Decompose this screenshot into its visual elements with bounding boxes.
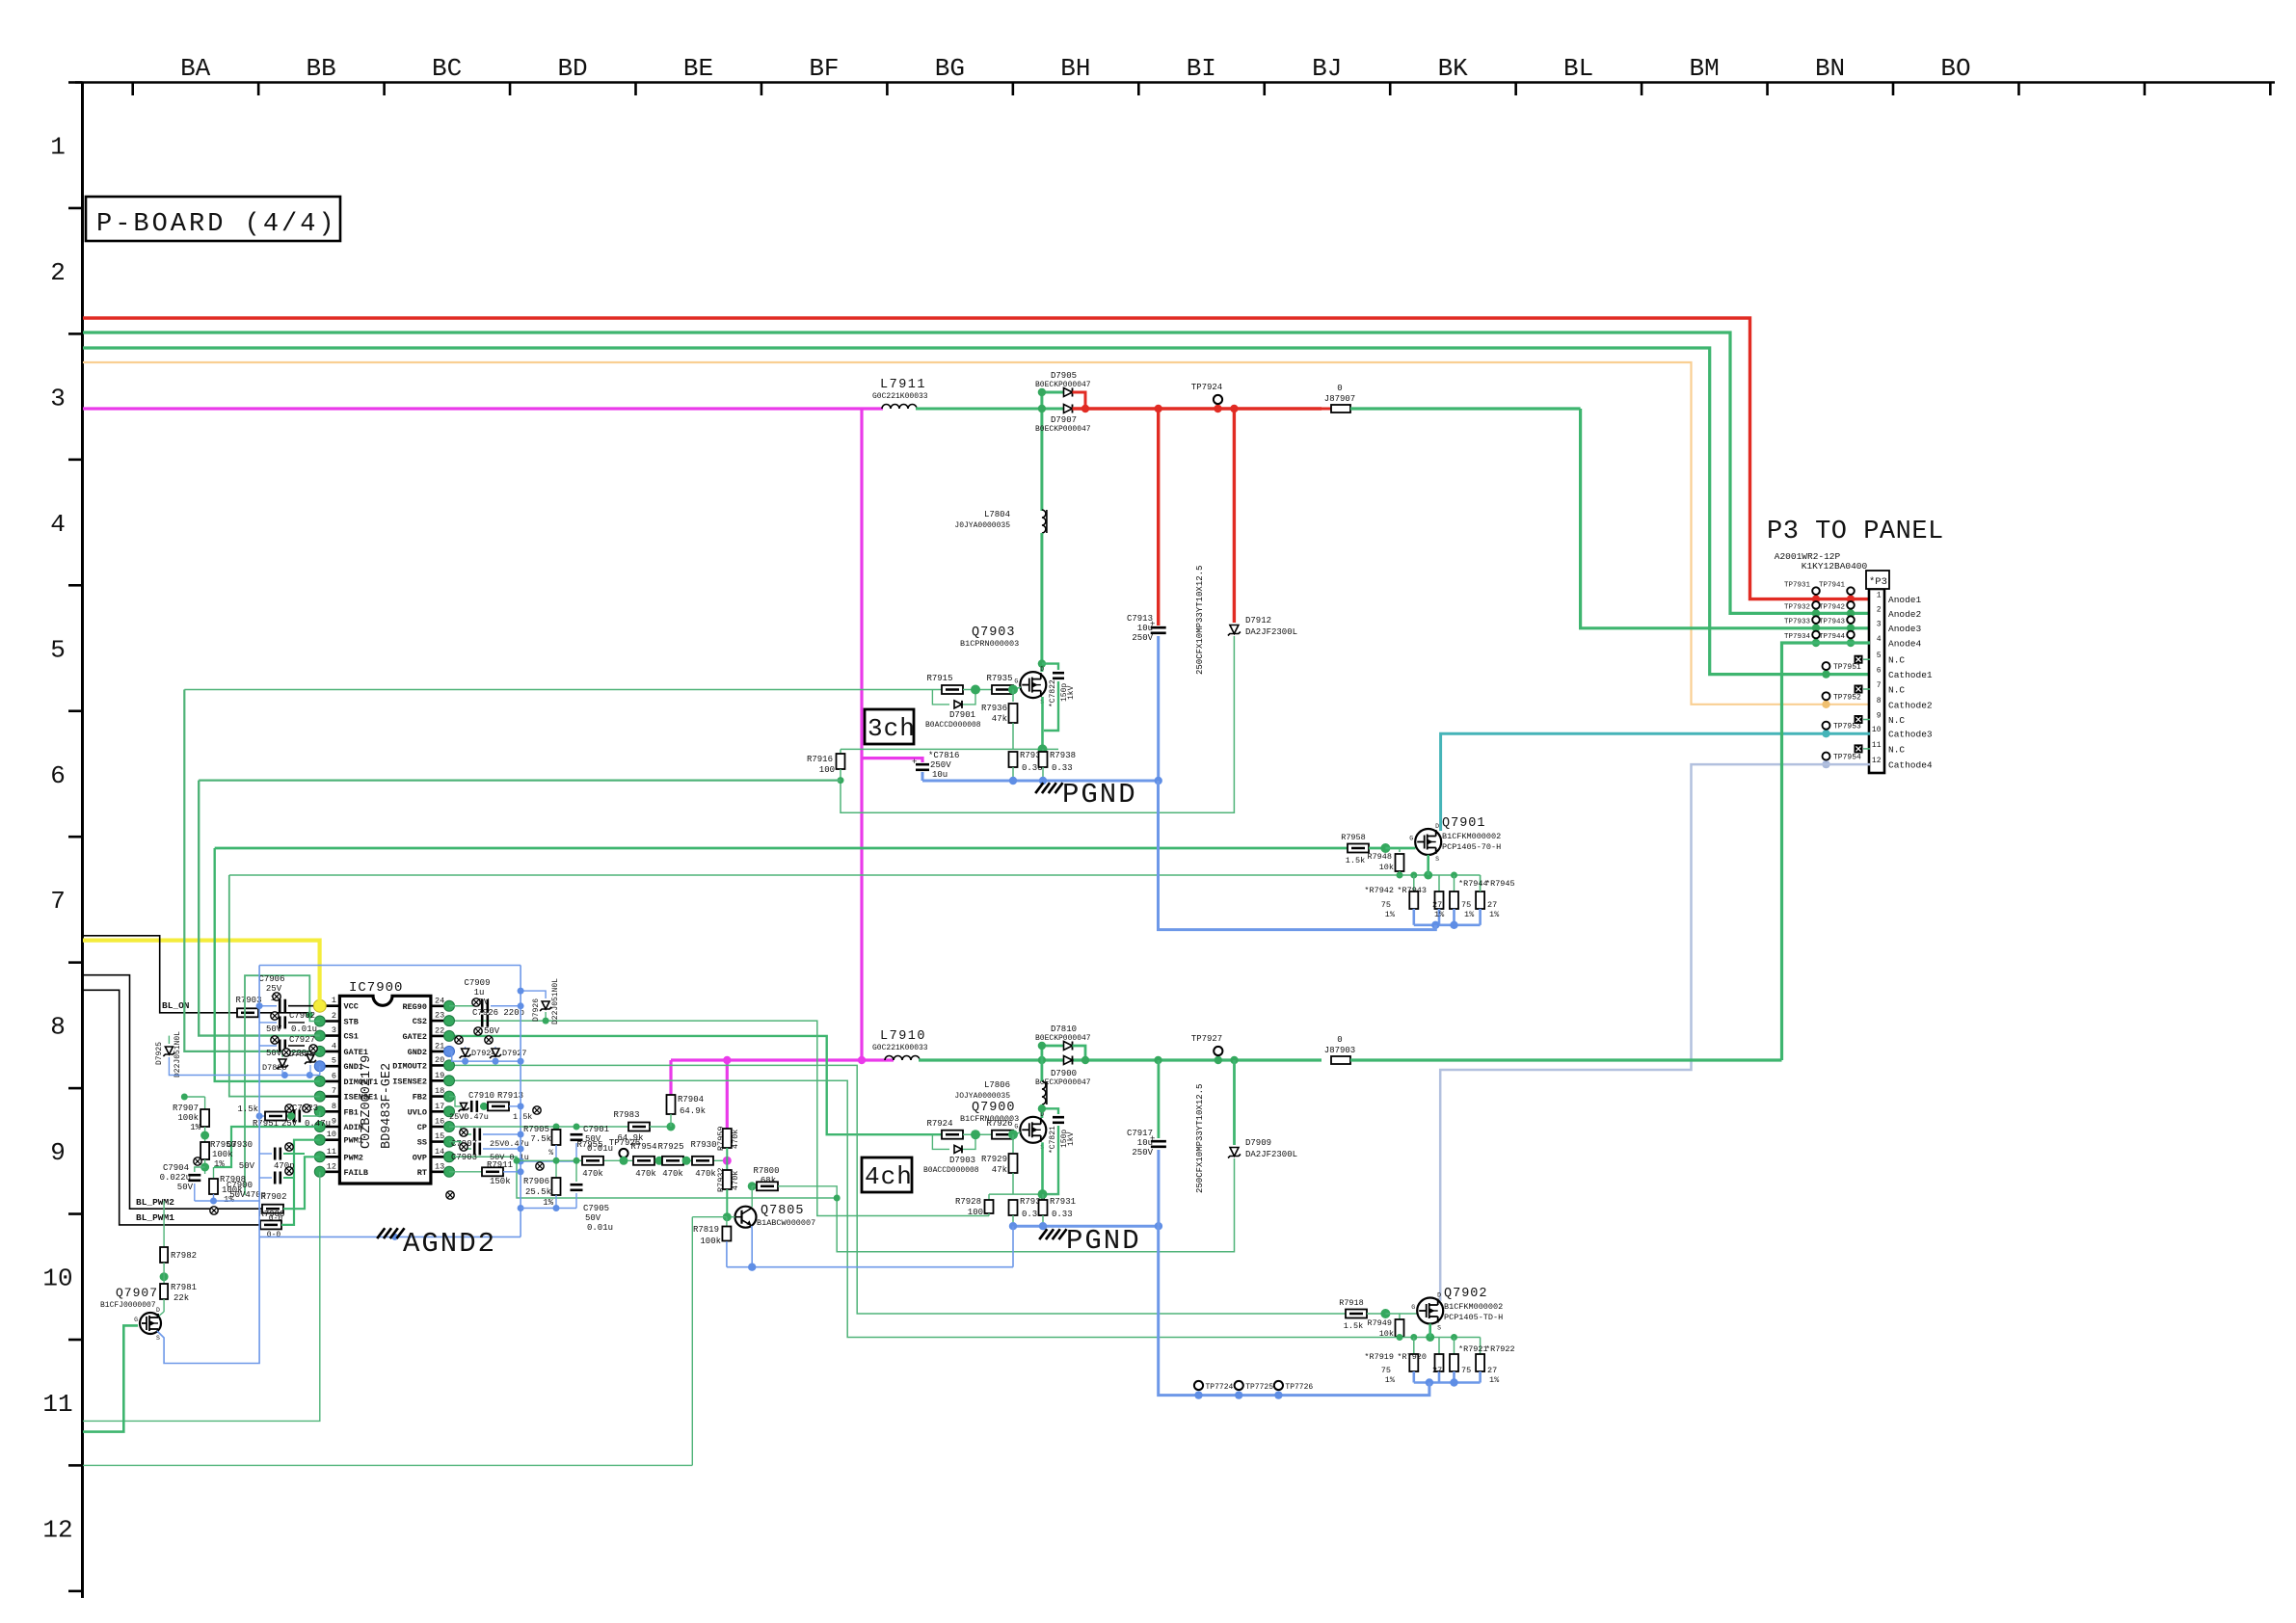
wire Q7907 source blue xyxy=(157,1237,259,1363)
inductor L7804 xyxy=(1042,510,1046,533)
svg-text:BB: BB xyxy=(307,54,336,83)
svg-text:250V: 250V xyxy=(930,760,951,770)
svg-text:0-0: 0-0 xyxy=(267,1231,281,1239)
svg-text:1.5k: 1.5k xyxy=(513,1112,532,1122)
svg-text:R7913: R7913 xyxy=(497,1091,523,1101)
svg-text:250V: 250V xyxy=(1132,633,1153,643)
svg-text:D7828: D7828 xyxy=(262,1063,287,1073)
svg-text:9: 9 xyxy=(50,1138,66,1167)
wire 4ch trunk green xyxy=(919,1058,1322,1061)
inductor L7911 xyxy=(882,405,917,410)
resistor R7983 64.9k xyxy=(628,1123,650,1131)
svg-text:D7912: D7912 xyxy=(1245,616,1271,625)
capacitor C7902 xyxy=(259,1022,277,1024)
mosfet Q7902 xyxy=(1417,1298,1443,1324)
ground PGND 3ch xyxy=(1035,783,1043,793)
svg-text:1%: 1% xyxy=(214,1159,225,1169)
wire CS1 from 3ch xyxy=(199,781,320,1036)
svg-text:TP7944: TP7944 xyxy=(1819,633,1846,641)
wire Q7907 gate feed xyxy=(83,1325,138,1431)
wire 3ch red rail to J87907 xyxy=(1073,407,1322,410)
svg-text:C7926 220p: C7926 220p xyxy=(472,1008,524,1018)
svg-text:PCP1405-TD-H: PCP1405-TD-H xyxy=(1444,1313,1503,1322)
svg-text:R7906: R7906 xyxy=(523,1177,549,1186)
svg-text:50V: 50V xyxy=(239,1161,255,1171)
svg-text:470k: 470k xyxy=(731,1171,740,1190)
svg-text:R7955: R7955 xyxy=(576,1140,602,1150)
IC pin 17 UVLO xyxy=(431,1110,449,1113)
svg-text:10: 10 xyxy=(42,1264,72,1293)
svg-text:*R7943: *R7943 xyxy=(1397,886,1427,895)
svg-text:5: 5 xyxy=(1877,652,1882,660)
svg-text:S: S xyxy=(1437,1325,1441,1332)
svg-text:12: 12 xyxy=(327,1161,336,1171)
svg-text:47k: 47k xyxy=(992,1165,1007,1175)
svg-text:S: S xyxy=(156,1335,160,1342)
svg-text:2: 2 xyxy=(332,1011,336,1021)
resistor R7903 xyxy=(237,1008,258,1017)
wire DIMOUT1 from Q7901 line xyxy=(215,848,320,1081)
svg-text:TP7941: TP7941 xyxy=(1819,582,1846,590)
wire Q7900 source junction xyxy=(1041,1142,1044,1194)
svg-text:Anode3: Anode3 xyxy=(1888,624,1922,634)
svg-text:R7959: R7959 xyxy=(716,1126,726,1151)
svg-text:*C7821: *C7821 xyxy=(1049,1126,1057,1154)
IC pin 24 REG90 xyxy=(431,1005,449,1008)
diode D7925 xyxy=(168,1036,170,1044)
svg-text:9: 9 xyxy=(1877,712,1882,721)
IC pin 18 FB2 xyxy=(431,1095,449,1098)
svg-text:C7917: C7917 xyxy=(1127,1129,1153,1138)
wire Q7903 source junction xyxy=(1041,697,1044,749)
wire Q7903 drain branch xyxy=(1042,392,1064,409)
svg-text:CS2: CS2 xyxy=(413,1017,427,1026)
wire 4ch PGND bus blue xyxy=(1013,1225,1159,1228)
wire D7912 return xyxy=(841,636,1234,812)
svg-text:B1CFJ0000007: B1CFJ0000007 xyxy=(100,1301,156,1310)
svg-text:G0C221K00033: G0C221K00033 xyxy=(872,1044,928,1052)
svg-text:75: 75 xyxy=(1381,1366,1391,1375)
svg-text:4: 4 xyxy=(332,1041,336,1051)
svg-text:Anode4: Anode4 xyxy=(1888,639,1922,650)
svg-text:B1CFKM000002: B1CFKM000002 xyxy=(1444,1302,1503,1312)
svg-text:C7913: C7913 xyxy=(1127,614,1153,624)
svg-text:OVP: OVP xyxy=(413,1153,427,1162)
svg-text:C7900: C7900 xyxy=(227,1181,253,1190)
resistor R7936 47k xyxy=(1012,690,1014,703)
jumper J87907 0ohm xyxy=(1322,408,1331,411)
svg-text:C7903: C7903 xyxy=(451,1153,477,1162)
svg-text:C7905: C7905 xyxy=(583,1204,609,1213)
wire black BL_ON xyxy=(83,936,237,1013)
diode D7823 xyxy=(309,1046,311,1052)
svg-text:C7910: C7910 xyxy=(468,1091,494,1101)
wire PWM1 entry xyxy=(281,1140,320,1225)
svg-text:D7905: D7905 xyxy=(1051,371,1077,381)
svg-text:B1ABCW000007: B1ABCW000007 xyxy=(757,1218,815,1228)
svg-text:5: 5 xyxy=(332,1056,336,1066)
capacitor C7821 snubber xyxy=(1042,1108,1058,1114)
svg-text:B0ECXP000047: B0ECXP000047 xyxy=(1035,1078,1091,1087)
wire ISENSE1 from bus xyxy=(229,875,320,1097)
svg-text:BN: BN xyxy=(1815,54,1845,83)
svg-text:1%: 1% xyxy=(543,1198,553,1208)
svg-text:11: 11 xyxy=(1872,741,1882,750)
jumper J87903 0ohm xyxy=(1331,1056,1350,1064)
svg-text:25.5k: 25.5k xyxy=(525,1187,551,1197)
svg-text:100k: 100k xyxy=(177,1113,199,1123)
svg-text:D: D xyxy=(1435,823,1439,830)
IC pin 22 GATE2 xyxy=(431,1035,449,1038)
svg-text:R7929: R7929 xyxy=(981,1155,1007,1164)
svg-text:TP7725: TP7725 xyxy=(1245,1383,1273,1392)
svg-text:Q7903: Q7903 xyxy=(972,625,1016,640)
resistor R7926 xyxy=(992,1131,1013,1139)
resistor R7902 xyxy=(262,1205,283,1213)
4ch label box xyxy=(862,1157,912,1192)
diode D7900 xyxy=(1064,1056,1073,1065)
svg-text:%: % xyxy=(548,1149,553,1157)
wire DIMOUT1 gate line to Q7901 xyxy=(215,847,1348,850)
svg-text:10: 10 xyxy=(327,1130,336,1139)
svg-text:1: 1 xyxy=(50,133,66,162)
mosfet Q7900 xyxy=(1020,1117,1046,1143)
svg-text:J87903: J87903 xyxy=(1324,1046,1355,1055)
3ch label box xyxy=(865,709,914,744)
svg-text:D7909: D7909 xyxy=(1245,1138,1271,1148)
svg-text:25V: 25V xyxy=(266,984,282,994)
svg-text:100k: 100k xyxy=(700,1237,721,1246)
svg-text:64.9k: 64.9k xyxy=(680,1106,706,1116)
svg-text:K1KY12BA0400: K1KY12BA0400 xyxy=(1802,561,1868,572)
svg-text:13: 13 xyxy=(435,1161,444,1171)
svg-text:6: 6 xyxy=(1877,667,1882,676)
capacitor C7930 xyxy=(259,1153,272,1155)
svg-text:P3 TO PANEL: P3 TO PANEL xyxy=(1767,518,1944,546)
svg-text:TP7927: TP7927 xyxy=(1191,1034,1222,1044)
svg-text:22k: 22k xyxy=(174,1293,189,1303)
svg-text:21: 21 xyxy=(435,1041,444,1051)
resistor R7948 10k xyxy=(1399,848,1401,852)
svg-text:5: 5 xyxy=(50,635,66,664)
svg-text:27: 27 xyxy=(1432,900,1442,910)
svg-text:1u: 1u xyxy=(474,988,485,998)
svg-text:UVLO: UVLO xyxy=(408,1107,427,1117)
svg-text:0: 0 xyxy=(1337,384,1342,393)
svg-text:100k: 100k xyxy=(212,1150,233,1159)
wire CS1 sense to IC xyxy=(199,779,841,781)
svg-text:TP7724: TP7724 xyxy=(1206,1383,1234,1392)
wire UVLO rail xyxy=(449,1126,628,1128)
inductor L7806 xyxy=(1041,1060,1044,1081)
wire Anode4 riser xyxy=(1782,643,1871,1060)
svg-text:DA2JF2300L: DA2JF2300L xyxy=(1245,627,1297,637)
svg-text:100: 100 xyxy=(819,765,835,775)
svg-text:19: 19 xyxy=(435,1071,444,1080)
svg-text:SS: SS xyxy=(417,1138,427,1148)
wire ISENSE2 bus xyxy=(449,1080,1481,1337)
svg-text:27: 27 xyxy=(1487,1366,1497,1375)
svg-text:BM: BM xyxy=(1689,54,1719,83)
svg-text:BL_PWM1: BL_PWM1 xyxy=(136,1212,174,1223)
resistor R7935 xyxy=(992,685,1013,694)
svg-text:R7936: R7936 xyxy=(981,704,1007,713)
mosfet Q7903 xyxy=(1020,672,1046,698)
svg-text:G: G xyxy=(134,1317,138,1323)
svg-text:0.33: 0.33 xyxy=(1052,1210,1073,1219)
svg-text:FAILB: FAILB xyxy=(344,1168,369,1178)
svg-text:G0C221K00033: G0C221K00033 xyxy=(872,392,928,401)
resistor R7905 7.5k xyxy=(552,1130,561,1145)
svg-text:3ch: 3ch xyxy=(868,714,916,743)
resistor R7932 470k xyxy=(726,1160,728,1170)
wire ADIM xyxy=(214,1127,320,1167)
IC pin 12 FAILB xyxy=(320,1171,340,1174)
svg-text:1.5k: 1.5k xyxy=(1346,856,1365,865)
svg-text:ADIM: ADIM xyxy=(344,1123,363,1132)
svg-text:50V: 50V xyxy=(177,1183,194,1192)
capacitor C7905 xyxy=(575,1160,577,1182)
svg-text:IC7900: IC7900 xyxy=(349,980,403,996)
sense resistors R7942 R7943 R7944 R7945 xyxy=(1413,875,1415,891)
svg-text:D7926: D7926 xyxy=(532,998,541,1022)
svg-text:C7902: C7902 xyxy=(289,1011,315,1021)
svg-text:0.01u: 0.01u xyxy=(291,1024,317,1034)
ground PGND 4ch xyxy=(1039,1229,1047,1239)
svg-text:J87907: J87907 xyxy=(1324,394,1355,404)
svg-text:3: 3 xyxy=(332,1025,336,1035)
svg-text:DA2JF2300L: DA2JF2300L xyxy=(1245,1150,1297,1159)
resistor R7906 25.5k xyxy=(555,1160,557,1178)
svg-text:Anode2: Anode2 xyxy=(1888,609,1922,620)
testpoint TP7924 xyxy=(1214,395,1222,404)
svg-text:D7810: D7810 xyxy=(1051,1024,1077,1034)
svg-text:C7904: C7904 xyxy=(163,1163,189,1173)
svg-text:50V: 50V xyxy=(585,1213,601,1223)
svg-text:10k: 10k xyxy=(1379,863,1394,872)
svg-text:75: 75 xyxy=(1461,900,1471,910)
svg-text:Q7805: Q7805 xyxy=(761,1204,805,1218)
diode D7905 xyxy=(1064,388,1073,397)
svg-text:R7924: R7924 xyxy=(926,1119,952,1129)
resistor R7951 1.5k FB1 xyxy=(259,1115,268,1117)
IC pin 21 GND2 xyxy=(431,1051,449,1053)
svg-text:R7954: R7954 xyxy=(630,1142,656,1152)
svg-text:G: G xyxy=(1014,1123,1018,1130)
svg-text:TP7931: TP7931 xyxy=(1784,582,1811,590)
svg-text:BL_PWM2: BL_PWM2 xyxy=(136,1197,174,1208)
svg-text:R7916: R7916 xyxy=(807,755,833,764)
svg-text:*P3: *P3 xyxy=(1869,576,1887,588)
svg-text:50V: 50V xyxy=(484,1026,500,1036)
capacitor C7906 xyxy=(259,1005,277,1007)
svg-text:17: 17 xyxy=(435,1102,444,1111)
svg-text:12: 12 xyxy=(1872,757,1882,765)
svg-text:AGND2: AGND2 xyxy=(403,1228,496,1260)
svg-text:*C7816: *C7816 xyxy=(928,751,959,760)
svg-text:R7931: R7931 xyxy=(1050,1197,1076,1207)
testpoints TP7724 TP7725 TP7726 xyxy=(1194,1391,1202,1398)
wire Cathode1 green top xyxy=(83,348,1870,675)
svg-text:GATE1: GATE1 xyxy=(344,1048,369,1057)
wire STB left loop xyxy=(245,975,309,1195)
svg-text:10: 10 xyxy=(1872,726,1882,734)
svg-text:4: 4 xyxy=(1877,635,1882,644)
svg-text:*C7822: *C7822 xyxy=(1049,679,1057,707)
svg-text:R7800: R7800 xyxy=(753,1166,779,1176)
transistor Q7805 xyxy=(735,1207,757,1228)
svg-text:1%: 1% xyxy=(1385,910,1396,919)
diode D7924 xyxy=(465,1047,467,1051)
ground AGND2 xyxy=(259,1236,521,1237)
svg-text:TP7954: TP7954 xyxy=(1833,754,1861,762)
wire Q7901 blue return xyxy=(1414,923,1481,926)
testpoint TP7927 xyxy=(1214,1047,1222,1055)
svg-text:Cathode4: Cathode4 xyxy=(1888,760,1933,771)
svg-text:8: 8 xyxy=(1877,697,1882,705)
mosfet Q7907 xyxy=(140,1313,161,1334)
IC pin 9 ADIM xyxy=(320,1126,340,1129)
svg-text:D7901: D7901 xyxy=(949,710,975,720)
resistor R7909 xyxy=(260,1220,281,1229)
svg-text:9: 9 xyxy=(332,1117,336,1127)
resistor R7928 100 xyxy=(988,1194,990,1200)
wire Anode2 green top xyxy=(83,333,1870,613)
resistor R7959 470k xyxy=(723,1129,732,1148)
svg-text:G: G xyxy=(1411,1304,1415,1311)
diode D7907 xyxy=(1064,405,1073,413)
solder marks xyxy=(472,998,480,1006)
svg-text:R7925: R7925 xyxy=(657,1142,683,1152)
svg-text:REG90: REG90 xyxy=(402,1002,427,1012)
svg-text:75: 75 xyxy=(1381,900,1391,910)
IC pin 4 GATE1 xyxy=(320,1051,340,1053)
svg-text:B0ECKP000047: B0ECKP000047 xyxy=(1035,425,1091,434)
wire gate mid xyxy=(963,689,997,691)
svg-text:50V: 50V xyxy=(266,1024,282,1034)
wire GND2 blue bus xyxy=(449,1051,521,1061)
svg-text:BD9483F-GE2: BD9483F-GE2 xyxy=(380,1063,394,1149)
svg-text:BI: BI xyxy=(1187,54,1216,83)
wire blue left IC vertical xyxy=(258,966,260,1237)
svg-text:PWM1: PWM1 xyxy=(344,1136,363,1146)
capacitor C7909 xyxy=(449,1005,479,1007)
svg-text:4: 4 xyxy=(50,510,66,539)
wire Cathode4 lavender xyxy=(1440,764,1870,1301)
svg-text:D7900: D7900 xyxy=(1051,1069,1077,1078)
svg-text:R7935: R7935 xyxy=(986,674,1012,683)
svg-text:27: 27 xyxy=(1432,1366,1442,1375)
svg-text:Q7907: Q7907 xyxy=(116,1286,158,1300)
svg-text:TP7934: TP7934 xyxy=(1784,633,1811,641)
svg-text:1%: 1% xyxy=(1434,910,1445,919)
svg-text:R7982: R7982 xyxy=(171,1251,197,1261)
svg-text:C7909: C7909 xyxy=(464,978,490,988)
svg-text:STB: STB xyxy=(344,1018,359,1027)
wire ISENSE1 bus xyxy=(229,874,1481,876)
capacitor C7900 xyxy=(259,1177,272,1179)
wire red rail to P3 Anode3 via green xyxy=(1350,407,1581,410)
svg-text:470k: 470k xyxy=(582,1169,603,1179)
svg-text:1kV: 1kV xyxy=(1067,1131,1076,1146)
svg-text:11: 11 xyxy=(42,1390,72,1419)
svg-text:N.C: N.C xyxy=(1888,685,1905,696)
svg-text:ISENSE1: ISENSE1 xyxy=(344,1093,379,1103)
svg-text:3: 3 xyxy=(1877,621,1882,629)
svg-text:14: 14 xyxy=(435,1147,444,1157)
svg-text:2: 2 xyxy=(50,258,66,287)
resistor R7981 22k xyxy=(160,1284,168,1299)
IC U7900 BD9483F xyxy=(339,996,431,1184)
svg-text:7.5k: 7.5k xyxy=(530,1134,551,1144)
wire 3ch gate line xyxy=(184,689,942,691)
resistor R7931 0.33 xyxy=(1042,1194,1044,1200)
svg-text:Q7901: Q7901 xyxy=(1442,816,1486,831)
svg-text:R7904: R7904 xyxy=(678,1095,704,1104)
wire blue right IC vertical xyxy=(520,966,521,1237)
wire bottom green to border xyxy=(83,1464,692,1466)
svg-text:D22J051N0L: D22J051N0L xyxy=(174,1031,182,1078)
svg-text:8: 8 xyxy=(332,1102,336,1111)
svg-text:1%: 1% xyxy=(1464,910,1475,919)
capacitor C7904 xyxy=(195,1167,205,1172)
svg-text:R7930: R7930 xyxy=(690,1140,716,1150)
svg-text:D7927: D7927 xyxy=(502,1049,527,1058)
resistor R7982 xyxy=(163,1201,165,1246)
svg-text:Q7902: Q7902 xyxy=(1444,1287,1488,1301)
svg-text:N.C: N.C xyxy=(1888,655,1905,666)
svg-text:4ch: 4ch xyxy=(865,1162,913,1191)
svg-text:R7983: R7983 xyxy=(613,1110,639,1120)
sense resistors R7919 R7920 R7921 R7922 xyxy=(1413,1338,1415,1355)
svg-text:G: G xyxy=(1014,678,1018,685)
resistor R7954 xyxy=(633,1157,654,1165)
svg-text:1: 1 xyxy=(1877,592,1882,600)
svg-text:BK: BK xyxy=(1438,54,1469,83)
cathode testpoints xyxy=(1822,670,1829,678)
svg-text:+: + xyxy=(912,758,917,767)
svg-text:1.5k: 1.5k xyxy=(1344,1321,1363,1331)
svg-text:R7911: R7911 xyxy=(487,1160,513,1170)
diode D7810 xyxy=(1042,1046,1064,1060)
resistor R7908 100k xyxy=(213,1167,215,1178)
svg-text:1kV: 1kV xyxy=(1067,685,1076,700)
resistor R7930 xyxy=(692,1157,713,1165)
wire CS2 sense xyxy=(449,1021,989,1215)
svg-text:B0ACCD000008: B0ACCD000008 xyxy=(923,1166,979,1175)
svg-text:BC: BC xyxy=(432,54,462,83)
capacitor C7913 column xyxy=(1157,409,1160,625)
IC pin 16 CP xyxy=(431,1126,449,1129)
svg-text:BH: BH xyxy=(1060,54,1090,83)
svg-text:PGND: PGND xyxy=(1062,779,1137,811)
svg-text:0.33: 0.33 xyxy=(1052,763,1073,773)
svg-text:BA: BA xyxy=(180,54,211,83)
svg-text:7: 7 xyxy=(50,887,66,916)
svg-text:1: 1 xyxy=(332,996,336,1005)
wire FAILB from border xyxy=(83,1172,320,1422)
svg-text:50V470p: 50V470p xyxy=(229,1190,266,1200)
svg-text:G: G xyxy=(1409,836,1413,842)
IC pin 20 DIMOUT2 xyxy=(431,1064,449,1067)
svg-text:6: 6 xyxy=(50,761,66,790)
svg-text:L7806: L7806 xyxy=(984,1080,1010,1090)
svg-text:50V: 50V xyxy=(266,1049,282,1058)
svg-text:R7907: R7907 xyxy=(173,1104,199,1113)
svg-text:Q7900: Q7900 xyxy=(972,1101,1016,1115)
diode D7909 column xyxy=(1233,1060,1236,1145)
capacitor C7816 xyxy=(916,763,929,766)
